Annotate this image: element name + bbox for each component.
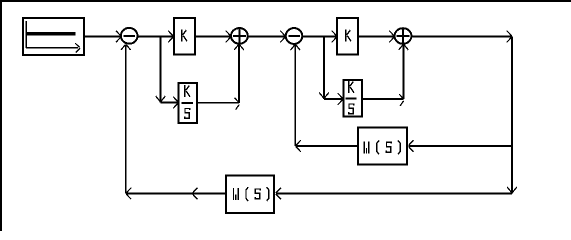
output vertical wire: [511, 37, 513, 194]
arrow down at KS1 corner: [156, 96, 166, 101]
feedback block WS2 (W(S)): [226, 176, 274, 214]
branch wire down to KS1: [160, 37, 162, 103]
arrow into K2: [332, 31, 337, 43]
arrow down at KS2 corner: [319, 93, 329, 98]
wire corner up to sum2: [238, 45, 240, 103]
top border line: [0, 0, 571, 2]
arrow up into sum3: [291, 45, 301, 50]
left border line: [0, 0, 2, 231]
outer feedback wire up to sum1: [125, 45, 127, 194]
wire K1 to sum2: [195, 36, 230, 38]
arrow at right corner: [507, 31, 512, 43]
wire corner to KS1: [161, 102, 178, 104]
feedback block WS1 (W(S)): [358, 128, 407, 165]
corner arrow at KS2 output: [399, 94, 404, 106]
outer feedback wire left segment: [126, 193, 225, 195]
integrator block KS1 (K/S): [179, 83, 198, 123]
outer feedback wire right segment: [276, 193, 512, 195]
corner arrow at KS1 output: [235, 98, 240, 110]
arrow into KS1: [173, 97, 178, 109]
source block X1 (step input): [23, 18, 84, 55]
gain block K1: [174, 18, 195, 55]
arrow into sum4: [389, 31, 394, 43]
summing junction S2 (plus): [231, 28, 248, 44]
wire sum2 to sum3: [248, 36, 285, 38]
wire corner to KS2: [324, 98, 342, 100]
integrator block KS2 (K/S): [344, 80, 363, 117]
arrow into sum2: [226, 31, 231, 43]
arrow into sum1: [116, 31, 121, 43]
wire corner up to sum4: [403, 45, 405, 100]
inner feedback wire up to sum3: [294, 45, 296, 146]
arrow into WS1: [409, 140, 414, 152]
gain block K2: [337, 18, 358, 55]
wire KS2 to corner: [362, 98, 404, 100]
inner feedback wire right segment: [409, 145, 512, 147]
wire sum3 to K2: [302, 36, 336, 38]
arrow into KS2: [338, 93, 343, 105]
arrow up into sum1: [121, 45, 131, 50]
arrow up into sum2: [234, 45, 244, 50]
inner feedback wire left segment: [295, 145, 357, 147]
arrow into K1: [168, 31, 173, 43]
wire KS1 to corner: [197, 102, 239, 104]
wire sum1 to K1: [138, 36, 173, 38]
summing junction S3 (minus): [286, 28, 303, 44]
arrow up into sum4: [399, 45, 409, 50]
wire sum4 to right corner: [411, 36, 512, 38]
arrow into WS2: [276, 188, 281, 200]
arrow down at bottom right corner: [507, 187, 517, 192]
wire source to sum1: [85, 36, 120, 38]
arrow left at inner corner: [296, 140, 301, 152]
summing junction S4 (plus): [395, 28, 412, 44]
branch wire down to KS2: [323, 37, 325, 100]
wire K2 to sum4: [358, 36, 394, 38]
summing junction S1 (minus): [121, 28, 138, 44]
arrow into sum3: [280, 31, 285, 43]
mid arrow on outer feedback: [193, 188, 198, 200]
arrow left at bottom left corner: [126, 188, 131, 200]
